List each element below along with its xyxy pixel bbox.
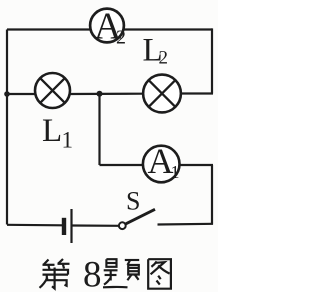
svg-text:8: 8 (83, 255, 102, 292)
lamp L2 (143, 75, 181, 113)
wire branch vertical (98, 94, 100, 165)
node junction left (4, 91, 10, 97)
label S (126, 186, 140, 215)
wire branch horizontal (100, 164, 214, 166)
wire right vertical upper (211, 28, 213, 93)
wire left vertical (6, 30, 8, 225)
switch S (119, 209, 155, 229)
svg-text:S: S (126, 186, 140, 215)
lamp L1 (35, 73, 70, 108)
svg-text:2: 2 (159, 48, 169, 69)
label L2 (143, 33, 169, 69)
caption digit 8 (83, 255, 102, 292)
svg-text:L: L (42, 113, 62, 149)
wire top rail (7, 28, 212, 30)
svg-text:1: 1 (171, 162, 180, 182)
ammeter A1 (143, 141, 180, 182)
wire battery to switch (73, 224, 120, 227)
label L1 (42, 113, 73, 153)
node junction middle (97, 91, 103, 97)
svg-text:1: 1 (62, 128, 74, 153)
wire middle rail center (71, 93, 143, 96)
ammeter A2 (90, 6, 126, 49)
caption character 图 (148, 259, 171, 289)
wire switch to right corner (158, 223, 214, 226)
caption character 第 (40, 259, 70, 289)
svg-text:2: 2 (116, 27, 126, 49)
wire middle rail left (7, 93, 35, 95)
battery (64, 209, 72, 243)
caption character 题 (103, 259, 139, 287)
wire L2 to right edge (182, 92, 214, 94)
wire bottom rail left (7, 224, 62, 227)
wire right vertical lower (211, 165, 213, 225)
